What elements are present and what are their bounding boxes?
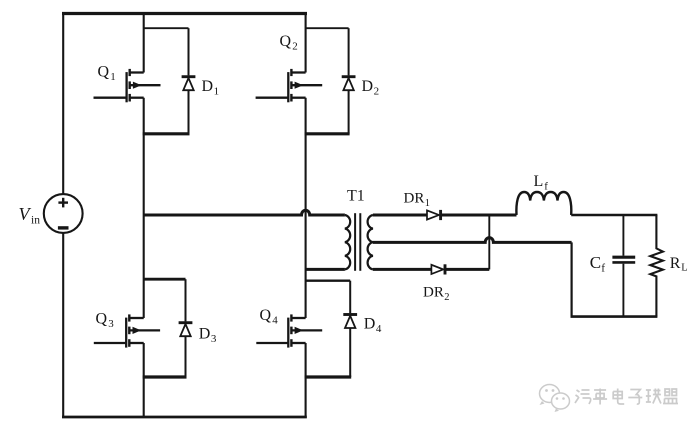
wire: DR1 cathode to filter node [441,214,517,217]
label Vin [19,204,41,227]
wire: Q1 diode-loop top [144,27,189,29]
wire: left leg midpoint vertical (Q1 source to Q3 drain, node A) [143,98,145,318]
svg-text:4: 4 [376,323,382,335]
wire: output bottom line [571,315,658,318]
label Lf [534,173,549,193]
wire: right leg lower vertical (Q4 source to bottom rail) [305,343,307,418]
label Q4 [260,307,279,327]
wire: secondary center tap line (hop over rectifier junction) [373,238,572,243]
svg-text:Q: Q [98,64,110,81]
wire: secondary top lead to DR1 anode [373,214,427,217]
capacitor Cf [612,215,635,317]
svg-text:L: L [681,263,687,274]
svg-text:D: D [364,316,376,333]
transformer T1 core [355,213,360,271]
svg-text:T1: T1 [347,188,365,205]
svg-text:Q: Q [260,307,272,324]
wire: rectifier output junction vertical [488,215,490,269]
wire: left leg lower vertical (Q3 source to bottom rail) [143,343,145,418]
wire: Q4 diode-loop top [306,280,351,282]
resistor RL [650,215,663,317]
transistor Q4 [256,314,322,347]
wire: Q3 diode-loop top [144,278,186,281]
diode D1 (body diode) [182,28,196,134]
wire: left rail lower (Vin - to bottom rail) [62,233,64,418]
svg-text:2: 2 [292,41,298,53]
svg-text:3: 3 [108,318,114,330]
wire: node A to transformer primary top (hop over right leg) [144,210,345,215]
wire: left leg drain vertical (top rail to Q1) [143,14,145,73]
label RL [670,255,688,274]
label DR2 [423,285,450,304]
watermark logo (chat bubbles) [540,385,570,413]
svg-text:D: D [362,78,374,95]
transistor Q2 [256,69,323,102]
label D3 [199,326,217,346]
svg-text:1: 1 [110,71,116,83]
wire: Q1 diode-loop bottom [143,132,190,135]
label D1 [202,78,220,98]
label DR1 [404,191,431,210]
label D4 [364,316,382,336]
label Q3 [96,311,115,331]
wire: node B to transformer primary bottom [306,268,345,271]
wire: Q4 diode-loop bottom [305,375,352,378]
svg-text:V: V [19,204,32,224]
svg-text:f: f [601,263,605,275]
inductor Lf [516,192,571,215]
label Q2 [280,33,298,53]
wire: Q3 diode-loop bottom [143,375,187,378]
source Vin (DC voltage source) [44,194,83,233]
svg-text:1: 1 [214,86,220,98]
svg-text:f: f [544,181,548,193]
wire: left rail upper (Vin + to top rail) [62,12,64,195]
diode DR2 [431,264,445,274]
watermark text 汽车电子联盟 [575,389,678,405]
wire: Q2 diode-loop bottom [305,132,350,135]
transistor Q1 [94,69,161,102]
label D2 [362,78,380,98]
diode D2 (body diode) [342,28,356,134]
svg-text:Q: Q [96,311,108,328]
transformer T1 primary winding [345,215,350,269]
svg-text:R: R [670,255,681,272]
wire: output return vertical [570,242,572,316]
svg-text:2: 2 [444,292,449,303]
svg-text:C: C [590,253,601,272]
svg-text:2: 2 [374,86,380,98]
wire: secondary bottom lead to DR2 anode [373,268,432,271]
diode D4 (body diode) [343,281,357,377]
svg-text:4: 4 [272,315,278,327]
wire: bottom return rail [62,416,307,419]
wire: right leg midpoint vertical (Q2 source to Q4 drain, node B) [305,98,307,318]
wire: top supply rail [62,12,307,15]
label Cf [590,253,605,275]
svg-text:Q: Q [280,33,292,50]
label Q1 [98,64,116,84]
wire: Lf to output top node [571,214,657,216]
svg-text:L: L [534,173,544,190]
svg-text:D: D [202,78,214,95]
svg-text:DR: DR [404,191,425,207]
svg-text:3: 3 [211,333,217,345]
diode D3 (body diode) [179,279,193,377]
svg-text:D: D [199,326,211,343]
diode DR1 [427,210,441,220]
svg-text:DR: DR [423,285,444,301]
wire: right leg drain vertical (top rail to Q2) [305,14,307,73]
wire: Q2 diode-loop top [306,27,349,29]
svg-text:in: in [31,215,40,227]
svg-text:1: 1 [425,198,430,209]
wire: DR2 cathode to rectifier junction [445,268,489,271]
transformer T1 secondary winding (center-tapped) [368,215,373,269]
label T1 [347,188,365,205]
transistor Q3 [94,314,160,347]
